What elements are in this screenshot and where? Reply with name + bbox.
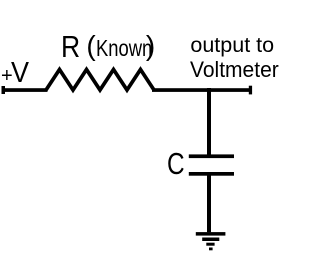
wire from output node down to capacitor	[207, 88, 211, 155]
node output label "Voltmeter"	[190, 59, 279, 81]
node +V label	[0, 0, 1, 1]
ground bar 1	[196, 232, 226, 236]
capacitor C top plate	[189, 154, 234, 158]
capacitor C1 label "C"	[167, 149, 185, 180]
wire from +V terminal to resistor	[2, 88, 48, 92]
ground bar 2	[202, 238, 219, 242]
terminal tick at output to voltmeter	[249, 86, 252, 95]
wire from capacitor to ground	[207, 175, 211, 232]
resistor R (Known) zigzag	[46, 70, 154, 91]
terminal tick at +V input	[2, 86, 6, 94]
node output label "output to"	[190, 35, 274, 57]
wire from resistor to output terminal	[152, 88, 252, 92]
ground bar 3	[206, 243, 214, 246]
capacitor C bottom plate	[189, 172, 234, 176]
resistor R1 label "R (Known)"	[0, 0, 1, 1]
ground bar 4	[209, 248, 213, 251]
